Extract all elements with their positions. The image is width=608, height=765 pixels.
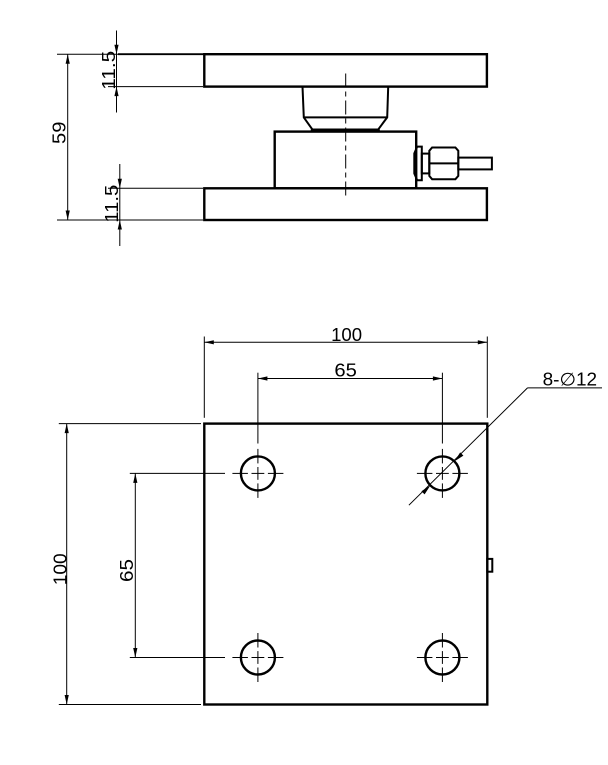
square plate [204,424,487,705]
dimension 11.5 top line [116,31,118,113]
nut mid line [429,162,458,164]
svg-text:11.5: 11.5 [99,51,119,90]
boss bottom line [304,116,387,118]
svg-text:8-∅12: 8-∅12 [543,369,598,389]
cable tab [487,559,492,572]
center mark hole top-right [417,449,468,498]
dimension 65 left line [134,473,136,657]
dimension 59 line [67,54,69,220]
dim 11.5 bottom arrow up [118,220,122,230]
extension horizontals for left 100 [59,423,201,425]
extension horizontals for left 65 [130,472,225,474]
extension line top of bottom plate [108,187,203,189]
dimension 100 left line [66,424,68,705]
center line [345,74,347,198]
hole top-right [425,456,459,490]
leader arrow lower (points up-right to circle) [421,485,430,494]
svg-text:100: 100 [51,553,71,585]
hole bottom-left [241,641,275,675]
bottom plate [204,188,487,220]
extension line bottom of top plate [108,86,203,88]
dimension 65 top line [258,378,443,380]
svg-text:11.5: 11.5 [102,185,122,223]
dim 59 arrow bottom [66,211,70,221]
svg-text:65: 65 [117,559,137,582]
hole bottom-right [425,641,459,675]
center mark hole bottom-right [417,633,468,682]
connector nut [429,148,458,180]
extension verticals for top 65 [257,373,259,444]
cable rod [458,158,492,170]
connector neck [422,154,430,174]
seat band [312,130,380,132]
leader line 8-d12 [409,388,528,505]
svg-text:100: 100 [331,325,362,345]
dimension 100 top line [204,341,487,343]
top plate [204,54,487,86]
dim 11.5 bottom arrow down [118,179,122,189]
dim 11.5 top arrow down [114,45,118,55]
dimension 11.5 bottom line [119,164,121,246]
hole top-left [241,456,275,490]
load cell body [275,132,417,189]
center mark hole top-left [232,449,283,498]
dim 11.5 top arrow up [114,87,118,97]
svg-text:65: 65 [334,360,357,380]
extension line top of top plate [57,53,118,55]
load button boss [303,87,389,130]
connector collar [414,147,422,181]
svg-text:59: 59 [50,122,70,145]
center mark hole bottom-left [232,633,283,682]
extension line bottom of bottom plate [57,219,203,221]
extension verticals for 100 [203,337,205,418]
leader arrow upper (points down-left to circle) [454,452,463,461]
dim 59 arrow top [66,54,70,64]
